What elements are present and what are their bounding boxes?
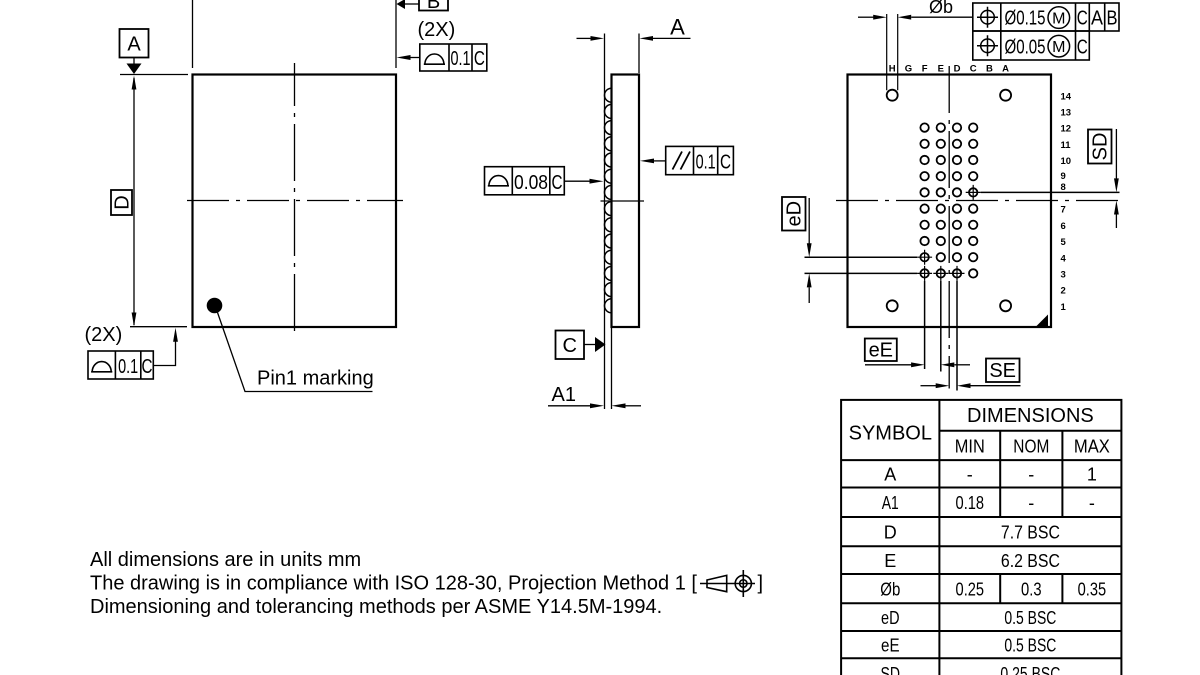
- datum A stem: [133, 58, 135, 65]
- svg-text:M: M: [1052, 39, 1065, 56]
- datum C leader: [584, 344, 596, 346]
- svg-text:(2X): (2X): [418, 19, 456, 41]
- position tolerance frame row 1: [973, 3, 1119, 31]
- extension line from top-right corner up: [395, 0, 397, 68]
- position symbol row 2: [981, 39, 995, 53]
- svg-text:SD: SD: [1090, 133, 1112, 161]
- pin 1 marking dot: [207, 298, 223, 314]
- corner ball A14: [1000, 90, 1011, 101]
- svg-text:0.1: 0.1: [696, 152, 716, 174]
- svg-text:M: M: [1052, 11, 1065, 28]
- svg-text:eE: eE: [869, 340, 893, 362]
- svg-text:1: 1: [1087, 465, 1097, 485]
- svg-text:11: 11: [1061, 140, 1072, 151]
- svg-text:-: -: [1028, 465, 1034, 485]
- corner ball H14: [887, 90, 898, 101]
- profile feature control frame (0.08 C): [485, 167, 565, 195]
- Øb dimension line and arrows: [858, 16, 874, 18]
- svg-text:B: B: [1107, 8, 1118, 30]
- svg-text:A1: A1: [552, 384, 576, 406]
- reference line from ball F3 to eD dimension: [805, 272, 918, 274]
- profile-of-surface symbol in frame: [424, 54, 445, 64]
- pin 1 leader line: [218, 313, 373, 392]
- svg-text:C: C: [720, 152, 731, 174]
- column letters H..A: [889, 64, 1009, 75]
- vertical center line (bottom view): [948, 66, 950, 389]
- horizontal center line (top view): [187, 200, 403, 202]
- leader arrow from top frame to extension line: [408, 57, 420, 59]
- svg-text:A: A: [884, 465, 896, 485]
- svg-text:Ø0.05: Ø0.05: [1005, 36, 1046, 58]
- svg-text:A: A: [1002, 64, 1009, 75]
- svg-text:C: C: [1077, 36, 1088, 58]
- vertical center line (top view): [294, 63, 296, 334]
- position tolerance frame row 2: [973, 31, 1090, 60]
- svg-text:2: 2: [1061, 286, 1066, 297]
- svg-text:0.25: 0.25: [956, 579, 985, 599]
- svg-text:10: 10: [1061, 156, 1072, 167]
- svg-text:6: 6: [1061, 221, 1066, 232]
- svg-text:6.2 BSC: 6.2 BSC: [1001, 551, 1060, 571]
- svg-text:Øb: Øb: [929, 0, 953, 17]
- svg-text:-: -: [967, 465, 973, 485]
- corner ball A1: [1000, 300, 1011, 311]
- svg-text:3: 3: [1061, 270, 1066, 281]
- dimension A line and arrows: [577, 37, 592, 39]
- table row A1: [882, 493, 1095, 513]
- svg-text:13: 13: [1061, 108, 1072, 119]
- svg-text:0.35: 0.35: [1078, 579, 1107, 599]
- row numbers 14..1: [1061, 91, 1072, 313]
- chamfer corner mark (pin A1 corner): [1037, 315, 1049, 327]
- dimension A1 line and arrows: [548, 405, 591, 407]
- svg-text:C: C: [474, 48, 485, 70]
- parallelism feature control frame (// 0.1 C): [666, 146, 734, 174]
- svg-text:SYMBOL: SYMBOL: [849, 422, 932, 444]
- table row Øb: [880, 579, 1106, 599]
- leader arrow from parallelism frame to body: [652, 160, 666, 162]
- datum B leader: [405, 3, 419, 5]
- leader from bottom-left frame up to extension line: [153, 340, 175, 366]
- extension line from top-left corner up: [192, 0, 194, 68]
- svg-text:1: 1: [1061, 302, 1067, 313]
- table row eD: [881, 608, 1056, 628]
- solder ball array (columns F E D C, rows 3..12): [920, 123, 977, 277]
- table row eE: [881, 635, 1056, 655]
- svg-text:SD: SD: [881, 664, 901, 675]
- svg-text:A: A: [670, 15, 685, 40]
- top extension line at left: [120, 74, 188, 76]
- svg-text:7.7 BSC: 7.7 BSC: [1001, 522, 1060, 542]
- SD dimension line and arrows: [1115, 129, 1117, 179]
- seating plane line (datum C): [604, 34, 606, 410]
- svg-text:F: F: [922, 64, 928, 75]
- svg-text:E: E: [884, 551, 896, 571]
- svg-text:SE: SE: [989, 360, 1016, 382]
- profile-of-surface symbol: [488, 176, 509, 186]
- table row E: [884, 551, 1060, 571]
- svg-text:0.5 BSC: 0.5 BSC: [1004, 608, 1056, 628]
- svg-text:The drawing is in compliance w: The drawing is in compliance with ISO 12…: [90, 573, 697, 595]
- svg-text:DIMENSIONS: DIMENSIONS: [967, 405, 1094, 427]
- corner ball H1: [887, 300, 898, 311]
- svg-text:14: 14: [1061, 91, 1072, 102]
- svg-text:C: C: [1077, 8, 1088, 30]
- SE boxed label: [986, 359, 1020, 383]
- reference line from ball F4 to eD dimension: [805, 256, 918, 258]
- reference line from ball C8 to SD dimension: [981, 191, 1120, 193]
- eD boxed label (rotated): [782, 197, 806, 231]
- datum C box: [556, 331, 585, 360]
- svg-text:C: C: [562, 335, 576, 357]
- eE dimension line and arrows: [865, 364, 912, 366]
- svg-text:C: C: [142, 356, 153, 378]
- package body outline (side view): [612, 75, 640, 328]
- svg-text:A1: A1: [882, 493, 899, 513]
- extension line down from ball D3: [956, 281, 958, 391]
- datum C triangle: [595, 337, 606, 352]
- svg-text:4: 4: [1061, 253, 1067, 264]
- horizontal center line (bottom view): [836, 200, 1120, 202]
- svg-text:eE: eE: [881, 635, 900, 655]
- svg-text:5: 5: [1061, 237, 1067, 248]
- svg-text:-: -: [1028, 493, 1034, 513]
- body right edge extension above: [638, 34, 640, 74]
- datum B box (cut off at top): [419, 0, 448, 11]
- datum B triangle (filled, pointing left onto extension line): [397, 0, 406, 9]
- extension line down from ball E3: [940, 281, 942, 372]
- extension line down from ball F3: [924, 281, 926, 369]
- body left edge extension below: [611, 327, 613, 409]
- eD dimension line and arrows: [808, 198, 810, 244]
- svg-text:C: C: [970, 64, 977, 75]
- Øb tangent extension lines: [887, 14, 898, 90]
- svg-text:eD: eD: [784, 201, 806, 227]
- svg-text:MIN: MIN: [955, 437, 985, 457]
- svg-text:NOM: NOM: [1013, 437, 1049, 457]
- svg-text:MAX: MAX: [1074, 437, 1110, 457]
- svg-text:]: ]: [758, 573, 764, 595]
- svg-text:C: C: [552, 172, 563, 194]
- profile-of-surface symbol in bottom-left frame: [91, 362, 112, 372]
- svg-text:0.25 BSC: 0.25 BSC: [1000, 664, 1060, 675]
- svg-text:D: D: [112, 195, 134, 209]
- datum A box: [120, 29, 149, 58]
- svg-text:All dimensions are in units mm: All dimensions are in units mm: [90, 549, 361, 571]
- svg-text:(2X): (2X): [85, 324, 123, 346]
- feature control frame bottom-left (profile 0.1 C): [88, 351, 153, 379]
- svg-text:E: E: [938, 64, 944, 75]
- svg-text:7: 7: [1061, 205, 1066, 216]
- svg-text:0.5 BSC: 0.5 BSC: [1004, 635, 1056, 655]
- svg-text:D: D: [884, 522, 897, 542]
- svg-text:Ø0.15: Ø0.15: [1005, 8, 1046, 30]
- svg-text:Øb: Øb: [880, 579, 900, 599]
- solder ball profiles (side view): [605, 88, 612, 313]
- leader arrow from profile frame to ball side: [564, 180, 590, 182]
- svg-text:D: D: [954, 64, 961, 75]
- svg-text:8: 8: [1061, 182, 1066, 193]
- cross marks on datum balls: [917, 185, 981, 281]
- svg-text:0.3: 0.3: [1021, 579, 1042, 599]
- center line crossing (side view): [601, 200, 645, 202]
- svg-text:9: 9: [1061, 171, 1066, 182]
- SE dimension line and arrows: [921, 385, 937, 387]
- table row A: [884, 465, 1097, 485]
- table grid: [841, 400, 1121, 675]
- svg-text:H: H: [889, 64, 896, 75]
- feature control frame top (profile 0.1 C): [420, 44, 487, 71]
- parallelism symbol: [673, 152, 691, 170]
- svg-text:12: 12: [1061, 124, 1072, 135]
- package body outline (top view): [193, 75, 397, 328]
- eE boxed label: [865, 339, 897, 362]
- svg-text:Pin1 marking: Pin1 marking: [257, 368, 374, 390]
- table row SD (cut off at bottom): [881, 664, 1061, 675]
- svg-text:B: B: [986, 64, 993, 75]
- bottom extension line at left: [130, 326, 187, 328]
- projection method symbol: circles: [735, 575, 751, 591]
- dimension D line with arrows: [133, 78, 135, 325]
- SD boxed label (rotated): [1088, 130, 1112, 164]
- svg-text:eD: eD: [881, 608, 900, 628]
- svg-text:B: B: [427, 0, 440, 13]
- dimension D boxed label (rotated): [111, 190, 132, 215]
- package body outline (bottom view): [848, 75, 1052, 328]
- projection method symbol: truncated cone: [700, 575, 755, 591]
- svg-text:0.08: 0.08: [514, 172, 548, 194]
- svg-text:Dimensioning and tolerancing m: Dimensioning and tolerancing methods per…: [90, 596, 662, 618]
- position symbol row 1: [981, 10, 995, 24]
- svg-text:G: G: [905, 64, 912, 75]
- svg-text:A: A: [127, 34, 141, 56]
- svg-text:0.18: 0.18: [956, 493, 985, 513]
- svg-text:A: A: [1091, 8, 1104, 30]
- svg-text:0.1: 0.1: [451, 48, 471, 70]
- datum A triangle: [127, 64, 142, 75]
- svg-text:-: -: [1089, 493, 1095, 513]
- svg-text:0.1: 0.1: [118, 356, 138, 378]
- table row D: [884, 522, 1060, 542]
